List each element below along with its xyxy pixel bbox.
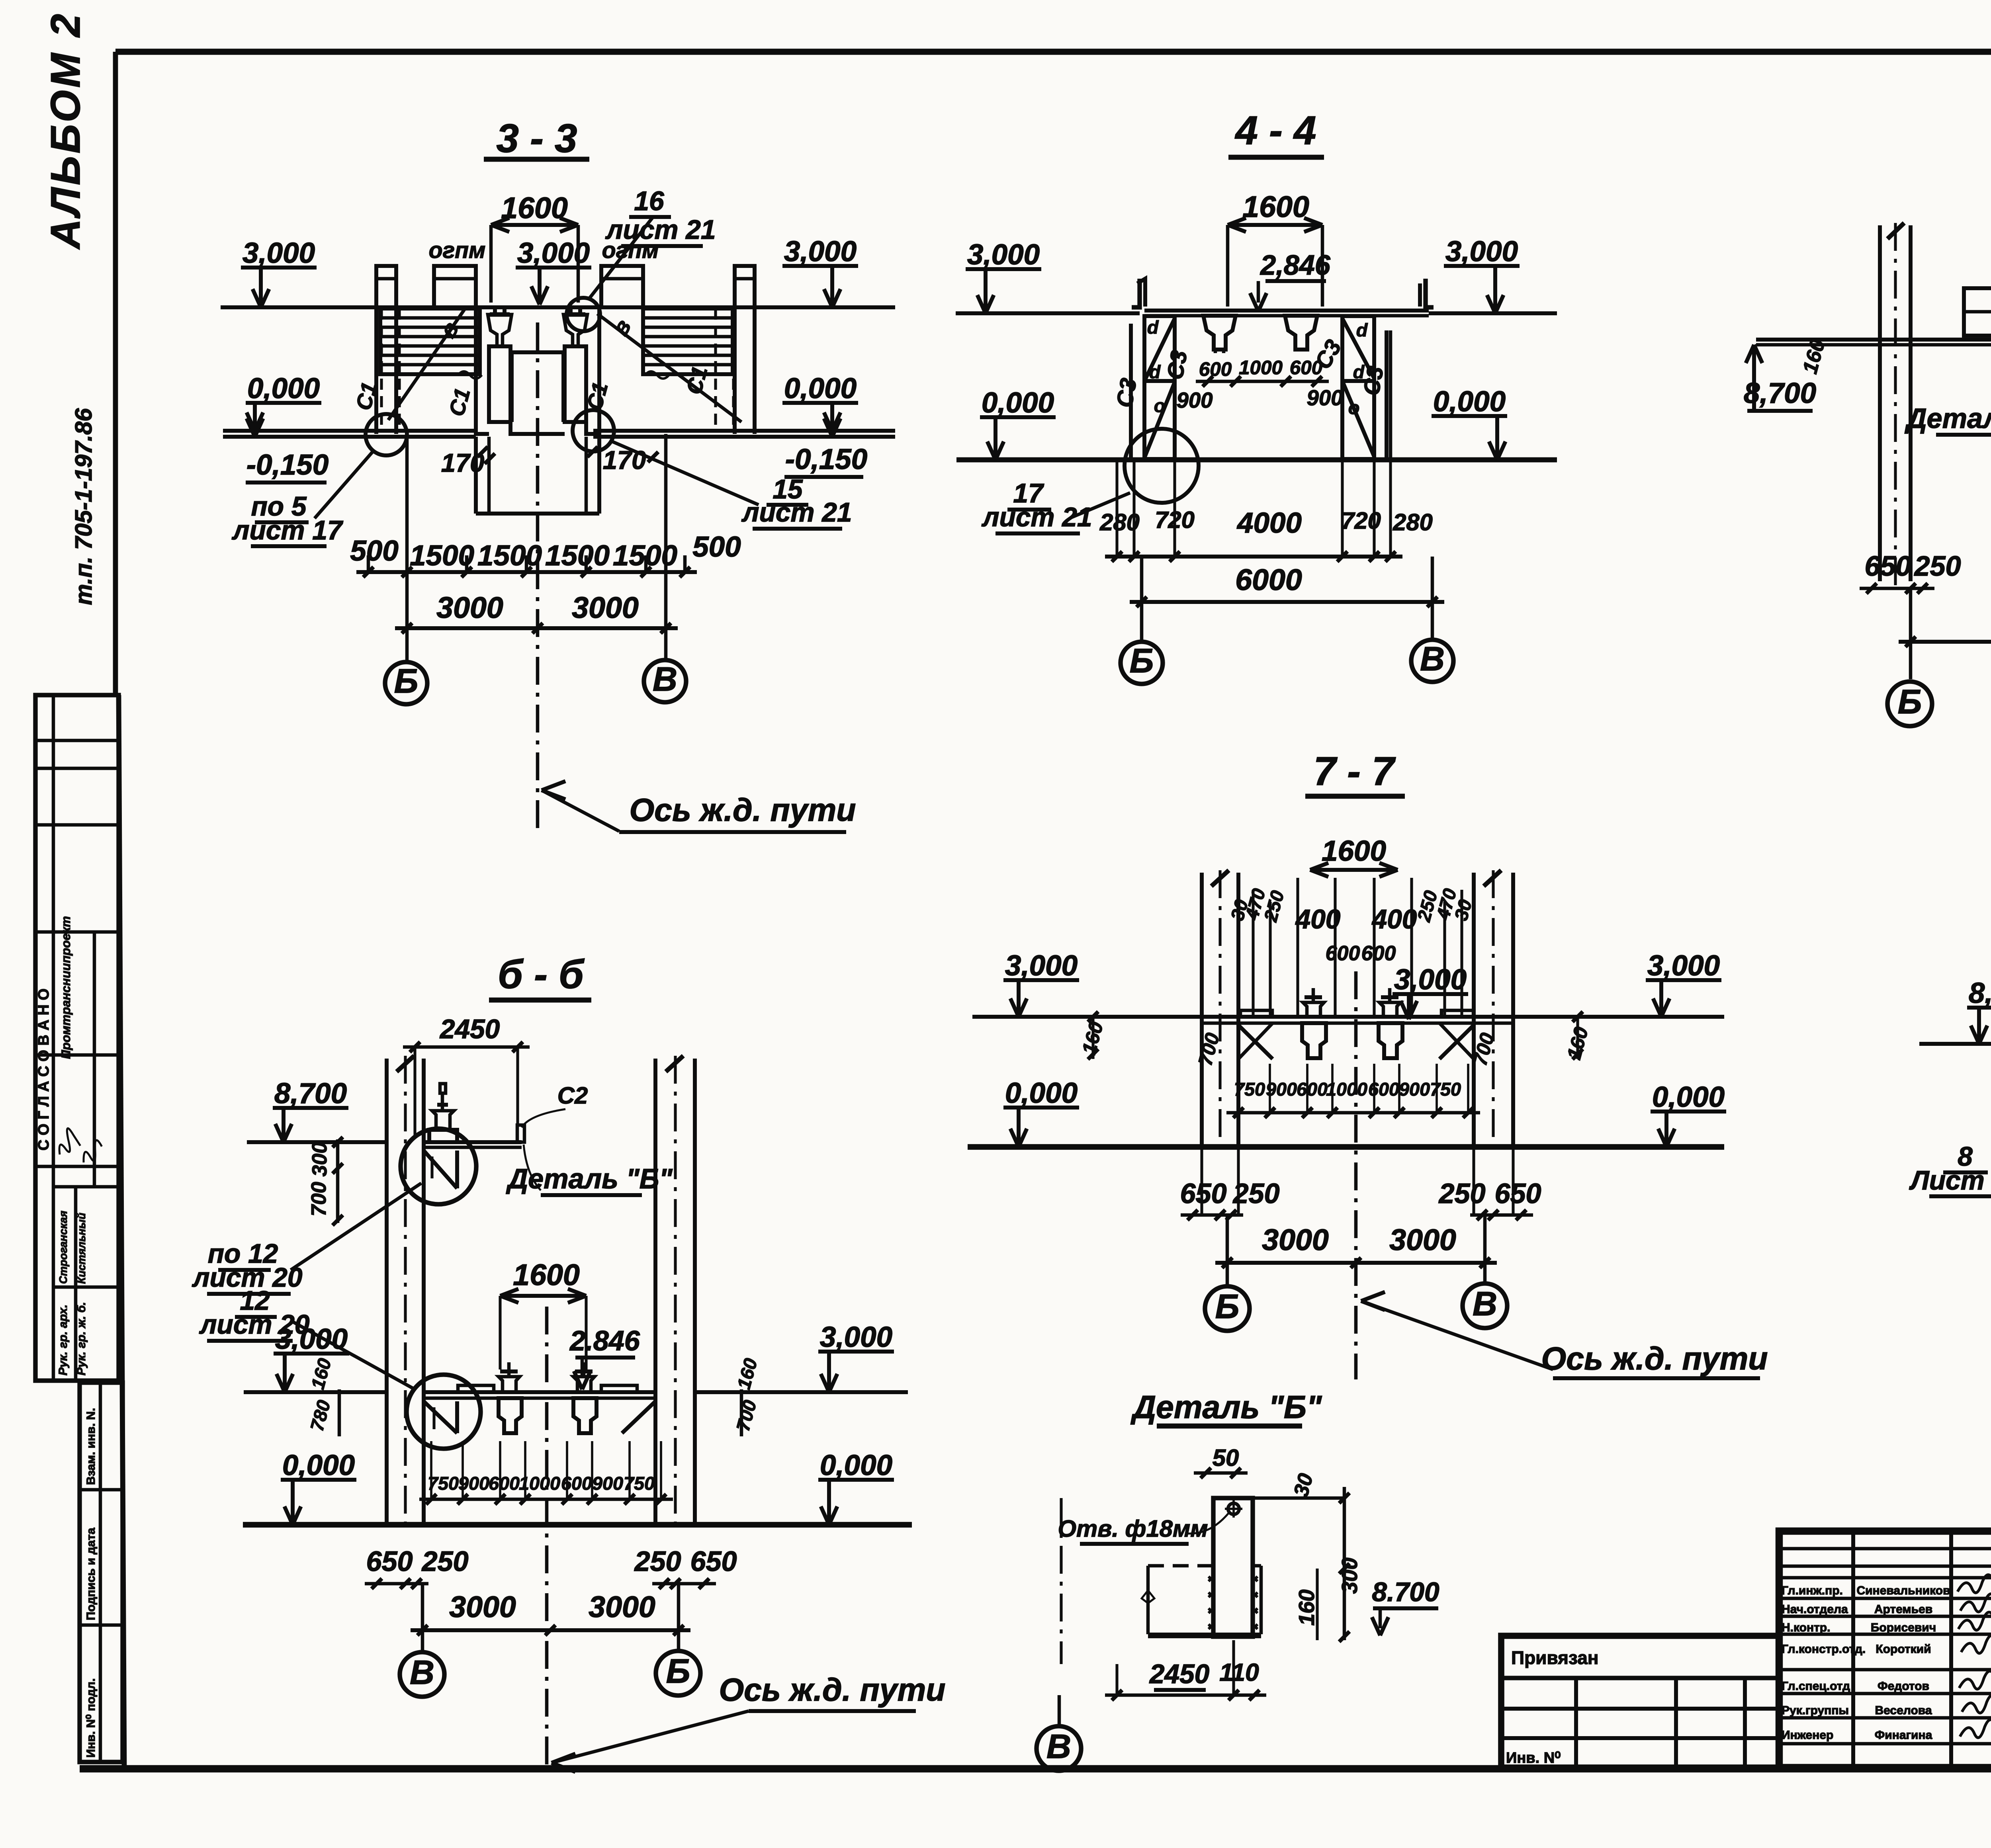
7-7 sleeper U left [1302, 1023, 1326, 1058]
svg-text:С2: С2 [557, 1082, 588, 1109]
svg-text:Инв. N⁰ подл.: Инв. N⁰ подл. [84, 1678, 98, 1758]
svg-text:Финагина: Финагина [1875, 1729, 1932, 1742]
3-3 axis bubble V [644, 660, 686, 702]
3-3 platform top line [396, 305, 434, 309]
svg-text:Веселова: Веселова [1875, 1704, 1932, 1717]
3-3 pit bottom line [476, 512, 599, 516]
b-b detail circle upper [401, 1129, 476, 1204]
svg-text:Инв. N⁰: Инв. N⁰ [1506, 1750, 1561, 1766]
svg-text:Промтрансниипроект: Промтрансниипроект [59, 916, 73, 1059]
svg-text:Б: Б [666, 1652, 690, 1690]
b-b left column top tick [397, 1056, 414, 1072]
7-7 left column centerline [1218, 870, 1221, 1151]
left stamp row line [35, 1053, 119, 1057]
b-b axis line V [421, 1584, 424, 1651]
4-4 left column top flag [1132, 279, 1140, 307]
b-b leader C2 [522, 1109, 565, 1127]
3-3 level line 3.000 right [755, 305, 895, 309]
7-7 right column top tick [1484, 870, 1501, 886]
7-7 dim row ext lines [1237, 1064, 1240, 1113]
svg-text:0,000: 0,000 [982, 387, 1054, 419]
detail B slab rect [1146, 1566, 1150, 1634]
5-5 left column top tick [1887, 223, 1904, 239]
b-b level line 8.700 [247, 1140, 387, 1144]
svg-text:Б: Б [1130, 642, 1154, 680]
b-b level line 3.000 right [695, 1390, 908, 1394]
4-4 right outer wall lines [1385, 330, 1389, 459]
svg-text:Отв. ф18мм: Отв. ф18мм [1058, 1515, 1208, 1542]
4-4 right column top flag [1426, 279, 1434, 307]
svg-text:Инженер: Инженер [1782, 1729, 1833, 1742]
3-3 diagonal leader left [388, 309, 465, 420]
detail B top dim line [1253, 1496, 1344, 1500]
svg-text:1500: 1500 [410, 539, 474, 572]
7-7 dim marks under platform [1091, 1017, 1094, 1059]
3-3 right hatched block [643, 309, 733, 374]
svg-text:3,000: 3,000 [1005, 949, 1078, 982]
4-4 dim 600-1000-600 line [1196, 380, 1329, 383]
3-3 foundation outline [476, 307, 489, 434]
svg-text:d: d [1149, 361, 1161, 382]
svg-text:Лист 19: Лист 19 [1909, 1166, 1991, 1196]
left stamp row line [35, 767, 119, 770]
detail B plate [1213, 1498, 1253, 1637]
3-3 detail circle lower-left [366, 414, 407, 455]
title block privyazan box [1501, 1636, 1779, 1768]
svg-text:700: 700 [307, 1182, 331, 1217]
left stamp upper block outline [35, 695, 119, 1381]
4-4 leader to note 17 [1071, 493, 1130, 518]
svg-text:50: 50 [1213, 1444, 1239, 1471]
4-4 axis line V [1431, 557, 1434, 640]
7-7 upper ext lines cluster right [1373, 878, 1375, 1017]
b-b dim 1600 ext lines [499, 1296, 501, 1369]
detail B slab top dashed [1148, 1564, 1213, 1568]
3-3 hatch line right [644, 344, 732, 348]
3-3 detail circle top [567, 298, 600, 331]
svg-text:Взам. инв. N.: Взам. инв. N. [84, 1408, 98, 1485]
7-7 rail left [1303, 1002, 1324, 1017]
svg-text:600: 600 [1199, 358, 1232, 380]
svg-text:б - б: б - б [498, 952, 585, 997]
svg-text:600: 600 [1368, 1079, 1399, 1100]
svg-text:0,000: 0,000 [784, 372, 857, 404]
3-3 right OGPM block [601, 266, 643, 307]
svg-text:1500: 1500 [545, 539, 610, 572]
svg-text:300: 300 [308, 1142, 331, 1177]
svg-text:-0,150: -0,150 [785, 443, 867, 475]
svg-text:Гл.инж.пр.: Гл.инж.пр. [1782, 1584, 1843, 1597]
7-7 column ext below ground right [1472, 1147, 1475, 1215]
svg-text:С3: С3 [1111, 376, 1142, 409]
3-3 dim 170 ticks [477, 447, 488, 457]
3-3 left hatched block [380, 309, 480, 374]
svg-text:650: 650 [1864, 550, 1911, 582]
svg-text:3 - 3: 3 - 3 [497, 116, 577, 161]
svg-text:4000: 4000 [1236, 507, 1302, 539]
b-b axis bubble V [400, 1652, 444, 1697]
privyazan grid rows [1501, 1707, 1779, 1711]
7-7 platform pads [1240, 1010, 1272, 1017]
b-b dim 2450 ext lines [413, 1047, 416, 1139]
lower stamp divider vertical [99, 1383, 102, 1762]
svg-text:650: 650 [1494, 1178, 1541, 1209]
svg-text:Гл.констр.отд.: Гл.констр.отд. [1782, 1643, 1866, 1656]
svg-text:Ось ж.д. пути: Ось ж.д. пути [629, 792, 856, 828]
svg-text:3,000: 3,000 [1445, 235, 1518, 268]
svg-text:3,000: 3,000 [820, 1321, 892, 1353]
svg-text:Строганская: Строганская [57, 1211, 69, 1284]
svg-text:АЛЬБОМ 2: АЛЬБОМ 2 [43, 12, 89, 250]
svg-text:1600: 1600 [1322, 835, 1386, 867]
svg-text:1500: 1500 [477, 539, 542, 572]
3-3 hidden column dashed right [714, 309, 717, 432]
7-7 platform double line [1202, 1015, 1513, 1019]
left stamp row line [35, 823, 119, 827]
svg-text:160: 160 [1295, 1589, 1319, 1625]
4-4 axis bubble V [1411, 640, 1453, 682]
svg-text:900: 900 [1399, 1079, 1430, 1100]
svg-text:2.846: 2.846 [569, 1325, 640, 1356]
b-b leader Detail B [524, 1145, 541, 1190]
3-3 left OGPM block [434, 266, 476, 307]
3-3 break squiggle left [458, 371, 482, 379]
3-3 diagonal leader right [597, 314, 741, 422]
svg-text:В: В [410, 1653, 434, 1692]
b-b axis line B [677, 1584, 681, 1651]
svg-text:8,700: 8,700 [1969, 977, 1991, 1009]
detail B hole leader and label [1187, 1513, 1229, 1533]
3-3 pedestal left [489, 346, 510, 422]
svg-text:3,000: 3,000 [784, 235, 857, 268]
7-7 axis note arrow [1361, 1292, 1385, 1301]
left stamp lower block outline [80, 1383, 123, 1762]
b-b left column pair [385, 1059, 389, 1525]
7-7 right column pair [1472, 873, 1476, 1147]
b-b dim 3000 line [411, 1628, 690, 1632]
b-b sleeper U left [499, 1398, 522, 1433]
3-3 pedestal right [565, 346, 586, 422]
privyazan grid verticals [1574, 1678, 1578, 1768]
7-7 axis line B [1226, 1215, 1229, 1285]
left stamp column line [93, 932, 96, 1187]
svg-text:Нач.отдела: Нач.отдела [1782, 1603, 1848, 1616]
left stamp row line [35, 739, 119, 742]
svg-text:110: 110 [1219, 1659, 1259, 1686]
svg-text:8,700: 8,700 [274, 1077, 347, 1110]
svg-text:огпм: огпм [429, 238, 486, 263]
b-b leader line to upper circle [291, 1183, 421, 1270]
svg-text:3000: 3000 [589, 1590, 655, 1623]
svg-text:650: 650 [366, 1545, 413, 1577]
svg-text:2,846: 2,846 [1260, 249, 1331, 281]
sheet frame border [115, 49, 1991, 55]
b-b center dash-dot line [545, 1307, 549, 1767]
4-4 dim 6000 line [1130, 600, 1444, 604]
svg-text:280: 280 [1393, 509, 1433, 535]
3-3 hatch line [381, 344, 479, 348]
personnel signatures [1958, 1575, 1991, 1593]
svg-text:600: 600 [1326, 942, 1360, 965]
detail B axis line to bubble [1058, 1695, 1061, 1726]
svg-text:Деталь "Б": Деталь "Б" [1130, 1389, 1322, 1425]
svg-text:лист 21: лист 21 [741, 498, 852, 527]
svg-text:Привязан: Привязан [1511, 1647, 1599, 1668]
svg-text:0,000: 0,000 [247, 372, 320, 404]
3-3 hatch line right [644, 335, 732, 338]
svg-text:750: 750 [624, 1473, 655, 1494]
svg-text:Б: Б [1898, 683, 1922, 721]
svg-text:300: 300 [1338, 1557, 1362, 1594]
b-b platform double line [424, 1390, 655, 1394]
b-b dim 650 250 line left [365, 1582, 428, 1586]
5-5 left column pair [1878, 225, 1882, 581]
7-7 dim 1600 line [1310, 868, 1398, 872]
svg-text:3,000: 3,000 [517, 237, 590, 269]
4-4 left brace diagonals [1144, 318, 1175, 381]
b-b ground line [243, 1522, 912, 1528]
svg-text:1600: 1600 [1242, 190, 1309, 223]
left stamp row line [35, 1165, 119, 1168]
svg-text:Б: Б [1215, 1287, 1240, 1326]
stamp signature 2 [79, 1139, 105, 1164]
svg-text:900: 900 [1306, 386, 1343, 410]
svg-text:0,000: 0,000 [1433, 385, 1506, 418]
svg-text:600: 600 [489, 1473, 520, 1494]
3-3 axis line B left [405, 434, 409, 662]
b-b dim row line [419, 1498, 673, 1501]
left stamp column line [52, 695, 55, 1381]
svg-text:Федотов: Федотов [1878, 1680, 1929, 1693]
4-4 right brace diagonals [1342, 318, 1374, 378]
b-b dims 160 780 rotated left [338, 1389, 341, 1436]
4-4 axis line B [1140, 557, 1144, 642]
b-b leader line to lower circle [293, 1322, 415, 1389]
b-b dim 250 650 line right [652, 1582, 716, 1586]
svg-text:900: 900 [592, 1473, 623, 1494]
title block outer [1779, 1531, 1991, 1768]
svg-text:Артемьев: Артемьев [1874, 1603, 1932, 1616]
3-3 axis line V right [664, 434, 668, 660]
b-b dims 700 160 rotated right [740, 1389, 743, 1436]
svg-text:Ось ж.д. пути: Ось ж.д. пути [719, 1672, 945, 1708]
svg-text:2450: 2450 [1149, 1659, 1209, 1689]
3-3 axis note arrow [542, 781, 565, 790]
svg-text:250: 250 [1913, 550, 1961, 582]
svg-text:3,000: 3,000 [1394, 963, 1467, 996]
7-7 level line left [972, 1015, 1202, 1019]
4-4 right brace box [1342, 316, 1374, 459]
svg-text:С3: С3 [1162, 348, 1192, 381]
svg-text:0,000: 0,000 [820, 1449, 892, 1481]
detail B axis bubble V [1037, 1726, 1081, 1771]
section 3-3 title underline [484, 157, 589, 162]
svg-text:В: В [1473, 1285, 1497, 1323]
7-7 ground line [968, 1144, 1724, 1150]
8-8 level line left [1919, 1042, 1991, 1046]
left stamp row line [53, 1185, 119, 1189]
3-3 detail circle lower-right [573, 410, 614, 451]
svg-text:900: 900 [1176, 388, 1213, 412]
svg-text:Подпись и дата: Подпись и дата [84, 1528, 98, 1620]
svg-text:3000: 3000 [572, 591, 639, 624]
7-7 left column pair [1200, 873, 1204, 1147]
3-3 hatch line [381, 363, 479, 367]
3-3 hatch line [381, 335, 479, 338]
svg-text:3,000: 3,000 [967, 238, 1040, 271]
svg-text:Рук.группы: Рук.группы [1782, 1704, 1849, 1717]
svg-text:4 - 4: 4 - 4 [1235, 108, 1316, 153]
detail B vertical dim line right [1343, 1487, 1346, 1640]
5-5 axis bubble B [1887, 682, 1932, 726]
svg-text:1600: 1600 [513, 1258, 580, 1291]
4-4 level line left [956, 311, 1140, 315]
b-b detail circle lower [407, 1375, 481, 1449]
detail B anchor marks [1209, 1576, 1213, 1581]
svg-text:650: 650 [690, 1545, 737, 1577]
svg-text:250: 250 [1438, 1178, 1485, 1209]
svg-text:лист 21: лист 21 [982, 502, 1092, 532]
3-3 dim 1600 extension lines [489, 225, 493, 303]
svg-text:500: 500 [692, 531, 741, 563]
3-3 ground double line right [593, 429, 895, 433]
3-3 rail assembly left [490, 312, 510, 316]
4-4 platform double line [1144, 309, 1429, 313]
3-3 dim 3000 line [395, 626, 678, 630]
svg-text:d: d [1147, 317, 1159, 338]
svg-text:о: о [1154, 395, 1166, 416]
personnel table row lines [1779, 1547, 1991, 1551]
svg-text:2450: 2450 [439, 1014, 500, 1044]
b-b rail left on platform [499, 1377, 520, 1392]
b-b sleeper U right [573, 1398, 597, 1433]
svg-text:3,000: 3,000 [243, 237, 315, 269]
7-7 axis bubble B [1205, 1286, 1250, 1331]
3-3 rail axis dash-dot line [536, 322, 540, 834]
svg-text:В: В [1420, 640, 1445, 678]
3-3 rail assembly right [565, 312, 585, 316]
3-3 axis bubble B [385, 662, 427, 704]
svg-text:0,000: 0,000 [1005, 1077, 1078, 1109]
b-b axis bubble B [656, 1651, 700, 1696]
detail B inner dim line [1316, 1569, 1318, 1640]
5-5 left column centerline [1894, 223, 1897, 585]
svg-text:600: 600 [1361, 942, 1396, 965]
3-3 dim 1600 line [491, 223, 578, 227]
svg-text:650: 650 [1180, 1178, 1226, 1209]
svg-text:600: 600 [1290, 357, 1322, 379]
svg-text:Синевальников: Синевальников [1856, 1584, 1950, 1597]
svg-text:Н.контр.: Н.контр. [1782, 1621, 1830, 1634]
lower stamp row line [80, 1623, 123, 1627]
3-3 hatch line right [644, 316, 732, 320]
b-b dim 1600 line [500, 1294, 586, 1298]
detail B axis dash-dot [1060, 1498, 1062, 1664]
3-3 right outer column cap [735, 266, 755, 307]
svg-text:В: В [1046, 1727, 1071, 1766]
3-3 break squiggle right [645, 371, 669, 379]
svg-text:500: 500 [350, 535, 398, 567]
svg-text:8.700: 8.700 [1372, 1577, 1439, 1607]
3-3 hatch line [381, 316, 479, 320]
4-4 dim ext lines [1115, 462, 1118, 557]
svg-text:250: 250 [421, 1545, 468, 1577]
b-b axis note arrow [552, 1754, 575, 1763]
svg-text:400: 400 [1371, 904, 1417, 934]
svg-text:о: о [1348, 397, 1360, 418]
svg-text:600: 600 [1297, 1079, 1328, 1100]
7-7 corbel right [1439, 1025, 1474, 1059]
detail B title underline [1157, 1424, 1302, 1429]
3-3 hatch line right [644, 354, 732, 357]
4-4 sleeper shape right [1285, 316, 1317, 350]
b-b dims 300 700 rotated [336, 1139, 340, 1223]
svg-text:400: 400 [1295, 904, 1341, 934]
svg-text:Короткий: Короткий [1876, 1643, 1931, 1656]
3-3 leader to note 15 [611, 441, 759, 505]
b-b right column pair [653, 1059, 657, 1525]
b-b beam at 8.700 [424, 1140, 522, 1144]
section 4-4 title underline [1228, 155, 1324, 160]
svg-text:6000: 6000 [1235, 563, 1302, 596]
svg-text:лист 17: лист 17 [232, 516, 344, 545]
detail B slab bottom thick [1148, 1633, 1261, 1638]
5-5 slab block stack [1964, 288, 1991, 336]
3-3 dim chain extension lines [367, 555, 370, 572]
3-3 hidden column dashed left [380, 309, 383, 432]
svg-text:Рук. гр. ж. б.: Рук. гр. ж. б. [75, 1302, 88, 1375]
left stamp row line [35, 930, 119, 934]
3-3 leader to note 16 [589, 217, 653, 299]
svg-text:1600: 1600 [501, 191, 568, 225]
3-3 pit walls below ground [474, 437, 478, 514]
svg-text:0,000: 0,000 [1652, 1081, 1725, 1113]
b-b left column centerline [404, 1056, 407, 1527]
b-b connector plate C2 small [517, 1125, 524, 1142]
4-4 dim chain line [1105, 555, 1402, 559]
7-7 level line right [1513, 1015, 1724, 1019]
7-7 left column top tick [1211, 870, 1229, 886]
svg-text:250: 250 [634, 1545, 681, 1577]
b-b dim row ext lines [430, 1441, 432, 1499]
4-4 dim 1600 extension lines [1226, 225, 1230, 307]
3-3 right outer column shafts [733, 307, 737, 434]
svg-text:Б: Б [394, 662, 419, 700]
3-3 hatch line [381, 354, 479, 357]
svg-text:d: d [1356, 320, 1368, 340]
svg-text:-0,150: -0,150 [246, 449, 329, 481]
3-3 hatch line [381, 326, 479, 329]
5-5 axis line B [1909, 588, 1913, 679]
7-7 center dash-dot line [1354, 971, 1358, 1379]
4-4 axis bubble B [1121, 642, 1163, 684]
5-5 dim 650 250 left line [1860, 587, 1934, 590]
svg-text:0,000: 0,000 [282, 1449, 355, 1481]
3-3 left outer column shafts [374, 307, 378, 434]
b-b level line 3.000 left [244, 1390, 387, 1394]
3-3 foundation inner line [512, 350, 563, 354]
svg-text:лист 21: лист 21 [605, 215, 716, 245]
3-3 hatch line right [644, 363, 732, 367]
svg-text:Деталь "А": Деталь "А" [1905, 402, 1991, 434]
7-7 dim row line [1226, 1111, 1480, 1115]
svg-text:750: 750 [1430, 1079, 1461, 1100]
b-b monorail rail assembly [429, 1130, 457, 1142]
4-4 level line right [1429, 311, 1557, 315]
svg-text:С О Г Л А С О В А Н О: С О Г Л А С О В А Н О [35, 988, 52, 1151]
svg-text:16: 16 [634, 186, 664, 216]
b-b corbel left [424, 1401, 457, 1433]
